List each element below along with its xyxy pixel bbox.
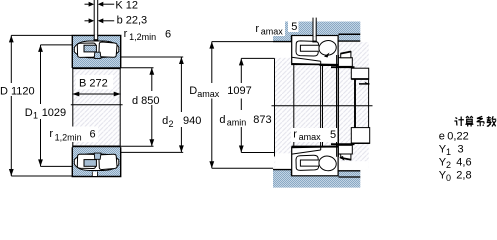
housing bottom block bbox=[273, 170, 360, 188]
cage pocket (top) bbox=[84, 45, 96, 52]
air gap below nut bbox=[338, 161, 368, 169]
dim D extension bottom bbox=[11, 175, 72, 177]
svg-text:r: r bbox=[124, 28, 128, 40]
sleeve face A bbox=[293, 65, 295, 147]
dim D line bbox=[10, 35, 12, 176]
svg-text:1029: 1029 bbox=[42, 107, 66, 119]
svg-text:2,8: 2,8 bbox=[456, 169, 471, 181]
bearing right edge bbox=[119, 35, 121, 176]
svg-text:5: 5 bbox=[291, 21, 297, 33]
bottom nut outer box bbox=[351, 128, 369, 144]
svg-text:6: 6 bbox=[90, 129, 96, 141]
dim d2 extensions bbox=[121, 56, 184, 58]
bottom leader arrow at washer tab bbox=[339, 156, 344, 161]
dim D1 line bbox=[40, 45, 42, 166]
svg-text:r: r bbox=[49, 128, 53, 140]
nut outer face bbox=[368, 79, 370, 133]
top section outline bbox=[72, 35, 120, 68]
bottom nut collar line bbox=[331, 143, 355, 145]
svg-text:e: e bbox=[439, 130, 445, 142]
xi bbox=[477, 116, 485, 126]
svg-text:b 22,3: b 22,3 bbox=[117, 15, 148, 27]
dim D1 extension top bbox=[41, 44, 73, 46]
svg-text:amax: amax bbox=[299, 132, 322, 142]
shaft hatch area between halves bbox=[72, 69, 120, 146]
svg-text:4,6: 4,6 bbox=[456, 156, 471, 168]
bottom spacer strip bbox=[339, 171, 361, 176]
shu bbox=[487, 116, 497, 126]
top spacer strip bbox=[339, 35, 361, 41]
svg-text:2: 2 bbox=[446, 160, 451, 170]
dim K bbox=[85, 2, 115, 7]
dim D1 extension bottom bbox=[41, 165, 73, 167]
dim d2 line bbox=[180, 57, 182, 152]
top nut outer box bbox=[351, 68, 368, 79]
roller right (top) bbox=[99, 42, 117, 57]
svg-text:0: 0 bbox=[446, 173, 451, 183]
svg-text:1,2min: 1,2min bbox=[129, 32, 156, 42]
svg-text:873: 873 bbox=[253, 114, 271, 126]
dim Damax line bbox=[211, 42, 213, 169]
leader arrow near washer bbox=[324, 53, 330, 58]
suan bbox=[465, 117, 473, 127]
shaft hatch bbox=[275, 42, 369, 170]
svg-text:d: d bbox=[219, 114, 225, 126]
axis line bbox=[272, 105, 373, 107]
svg-text:6: 6 bbox=[165, 29, 171, 41]
air gap left of bearing (bottom) bbox=[275, 153, 291, 169]
air gap left of bearing (top) bbox=[275, 42, 292, 58]
svg-text:3: 3 bbox=[458, 143, 464, 155]
svg-text:B 272: B 272 bbox=[79, 77, 108, 89]
svg-text:1097: 1097 bbox=[227, 85, 251, 97]
sleeve thread faces bbox=[320, 65, 322, 147]
bore line top (thick) bbox=[72, 67, 120, 69]
housing bottom shoulder face bbox=[273, 170, 292, 176]
right bearing bottom section bbox=[292, 147, 338, 176]
dim d extensions bbox=[121, 67, 154, 69]
svg-text:D 1120: D 1120 bbox=[0, 85, 35, 97]
housing top block bbox=[273, 22, 360, 42]
centerline bbox=[71, 104, 123, 106]
svg-text:r: r bbox=[255, 23, 259, 35]
dim d line bbox=[151, 68, 153, 146]
svg-text:D: D bbox=[25, 107, 33, 119]
right lube hole bbox=[313, 20, 315, 36]
top nut collar line bbox=[331, 66, 355, 68]
dim b bbox=[85, 18, 115, 23]
svg-text:amax: amax bbox=[197, 89, 220, 99]
svg-text:d: d bbox=[162, 115, 168, 127]
sleeve washer edge top bbox=[320, 65, 339, 67]
svg-text:1,2min: 1,2min bbox=[55, 132, 82, 142]
svg-text:2: 2 bbox=[169, 119, 174, 129]
guide flange (top) bbox=[94, 52, 101, 58]
dim damin extensions bbox=[241, 57, 291, 59]
bearing left edge bbox=[72, 35, 74, 176]
bottom section outline bbox=[72, 147, 120, 176]
svg-text:r: r bbox=[293, 128, 297, 140]
dim damin line bbox=[240, 58, 242, 152]
roller left (top) bbox=[77, 43, 95, 57]
lube hole gap bottom bbox=[93, 172, 98, 176]
top section outer ring bbox=[72, 35, 120, 68]
svg-text:0,22: 0,22 bbox=[447, 130, 468, 142]
svg-text:d 850: d 850 bbox=[132, 95, 160, 107]
dim B line bbox=[72, 93, 120, 95]
svg-text:K 12: K 12 bbox=[115, 0, 138, 11]
bottom lock washer tab bbox=[341, 154, 351, 160]
bottom section bbox=[72, 147, 120, 176]
white label boxes bbox=[0, 83, 37, 96]
nut inner face (thick) bbox=[354, 68, 356, 144]
inner ring / washer faces bbox=[336, 55, 338, 157]
top chamfer line + arrow bbox=[359, 83, 370, 85]
svg-text:D: D bbox=[189, 85, 197, 97]
heading (CJK drawn) bbox=[454, 116, 496, 126]
housing top shoulder face bbox=[273, 35, 292, 41]
housing top bore line right bbox=[339, 33, 361, 35]
sleeve washer edge bottom bbox=[292, 145, 339, 147]
dim D extension top bbox=[11, 34, 72, 36]
top lock washer tab bbox=[341, 52, 351, 58]
top nut body bbox=[338, 58, 353, 67]
svg-text:1: 1 bbox=[33, 111, 38, 121]
svg-text:940: 940 bbox=[183, 115, 201, 127]
bore line bottom (thick) bbox=[72, 145, 120, 147]
bottom nut body bbox=[338, 145, 353, 154]
ji bbox=[454, 117, 464, 127]
svg-text:amax: amax bbox=[261, 27, 284, 37]
right bearing top section bbox=[292, 36, 338, 65]
dim Damax extensions bbox=[212, 41, 273, 43]
sleeve small end face bbox=[274, 58, 276, 156]
svg-text:5: 5 bbox=[330, 129, 336, 141]
svg-text:amin: amin bbox=[227, 118, 247, 128]
lube hole lines bbox=[94, 39, 99, 41]
housing bottom bore line right bbox=[339, 176, 361, 178]
svg-text:1: 1 bbox=[446, 147, 451, 157]
inner ring right faces over bearing bbox=[336, 55, 338, 157]
lube hole gap top bbox=[95, 35, 98, 41]
